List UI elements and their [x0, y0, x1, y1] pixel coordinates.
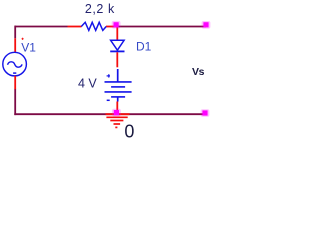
ground line 3 — [110, 120, 123, 122]
diode D1 anode pin — [116, 26, 118, 41]
node top right — [202, 21, 211, 29]
V1 polarity plus — [22, 38, 24, 40]
battery plate 3 long — [105, 91, 132, 93]
ground top line — [106, 113, 130, 115]
ground line 2 — [106, 116, 127, 118]
ground line 4 — [114, 123, 121, 125]
resistor R right pin — [106, 26, 116, 28]
wire left vertical upper — [14, 26, 16, 39]
V1 bottom pin — [14, 76, 16, 89]
battery plate 4 short — [111, 96, 125, 98]
battery bottom pin — [116, 102, 118, 115]
battery plate 1 long — [105, 81, 132, 83]
wire top rail right segment — [116, 26, 206, 28]
node bottom right — [201, 109, 210, 117]
diode D1 cathode pin — [116, 52, 118, 67]
battery bottom lead — [117, 97, 119, 102]
battery V2 top lead — [117, 69, 119, 82]
svg-text:0: 0 — [124, 121, 134, 139]
source V1 minus mark — [13, 72, 16, 74]
V1 top pin — [14, 38, 16, 52]
wire bottom rail — [14, 113, 203, 115]
svg-text:2,2 k: 2,2 k — [85, 2, 115, 16]
source V1 sine wave — [8, 62, 23, 67]
battery plus mark — [107, 74, 110, 77]
node junction top — [112, 21, 121, 29]
node junction bottom (ground) — [112, 109, 121, 117]
svg-text:D1: D1 — [136, 39, 152, 53]
resistor R left pin — [68, 26, 82, 28]
battery minus mark — [107, 99, 110, 101]
svg-text:V1: V1 — [21, 41, 36, 55]
source V1 circle — [3, 52, 27, 76]
svg-text:Vs: Vs — [192, 66, 205, 78]
diode D1 triangle — [111, 40, 125, 50]
battery plate 2 short — [111, 86, 125, 88]
resistor body 2,2 k — [81, 22, 106, 30]
diode D1 cathode bar — [110, 50, 124, 52]
wire top rail left segment — [15, 26, 68, 28]
ground line 5 — [115, 126, 117, 128]
svg-text:4 V: 4 V — [78, 77, 97, 91]
wire left vertical lower — [14, 89, 16, 115]
